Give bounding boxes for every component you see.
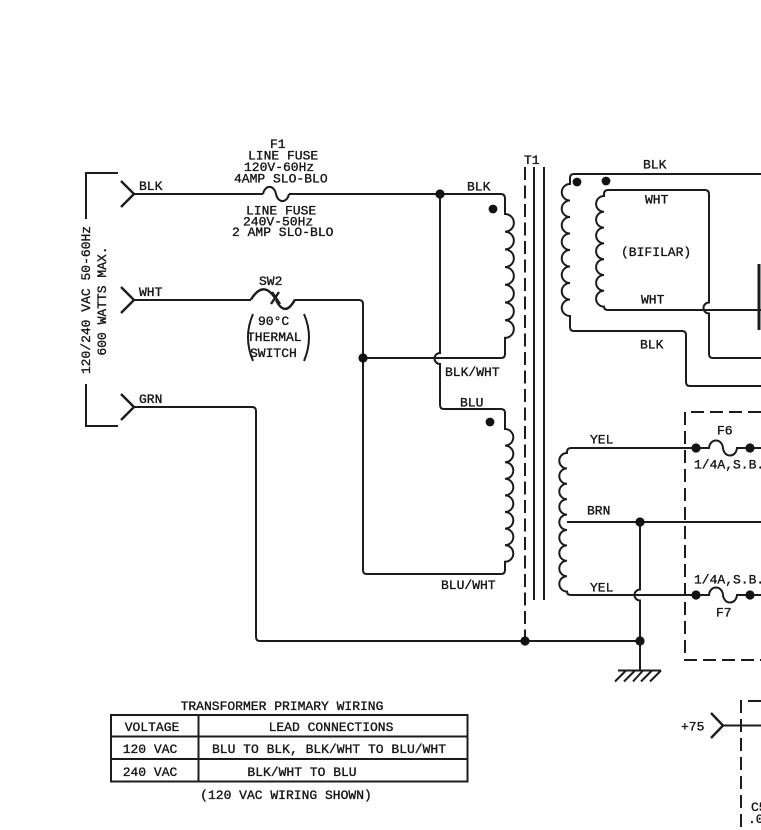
svg-text:240 VAC: 240 VAC bbox=[123, 765, 178, 780]
wire BRN tap bbox=[567, 521, 761, 523]
svg-text:BLK/WHT TO BLU: BLK/WHT TO BLU bbox=[247, 765, 356, 780]
svg-text:2 AMP SLO-BLO: 2 AMP SLO-BLO bbox=[232, 225, 334, 240]
svg-text:BLK: BLK bbox=[640, 338, 664, 353]
connector BLK input bbox=[121, 181, 134, 207]
ground symbol bbox=[615, 641, 661, 682]
svg-text:BLU TO BLK, BLK/WHT TO BLU/WHT: BLU TO BLK, BLK/WHT TO BLU/WHT bbox=[212, 742, 446, 757]
dashed module box bbox=[685, 412, 761, 660]
svg-text:90°C: 90°C bbox=[258, 314, 289, 329]
wire WHT top route (with hop) bbox=[608, 190, 761, 358]
svg-text:BLU/WHT: BLU/WHT bbox=[441, 578, 496, 593]
dashed box lower right bbox=[741, 701, 761, 830]
thermal switch SW2 bbox=[251, 289, 295, 309]
polarity dot primary BLK bbox=[489, 205, 498, 214]
secondary winding 2 bifilar bbox=[596, 190, 761, 310]
junction dot BRN bbox=[635, 517, 644, 526]
thermal switch note left paren bbox=[248, 314, 253, 361]
wire BLK to BLU (with hop) and BLU winding bbox=[435, 194, 514, 574]
svg-text:(BIFILAR): (BIFILAR) bbox=[621, 245, 691, 260]
svg-text:+75: +75 bbox=[681, 720, 704, 735]
svg-text:BLK: BLK bbox=[139, 179, 163, 194]
svg-text:VOLTAGE: VOLTAGE bbox=[125, 720, 180, 735]
thermal switch note right paren bbox=[304, 314, 309, 361]
connector +75 output bbox=[711, 713, 723, 738]
fuse F7 bbox=[691, 588, 761, 603]
clipped component right edge bbox=[758, 264, 761, 330]
wire +75 bbox=[723, 725, 761, 727]
wire BRN to ground bus (with hop) bbox=[635, 522, 641, 641]
fuse F1 bbox=[263, 187, 289, 201]
core lines bbox=[534, 167, 544, 600]
svg-text:WHT: WHT bbox=[139, 285, 163, 300]
svg-text:BRN: BRN bbox=[587, 504, 610, 519]
junction dot WHT node bbox=[358, 353, 367, 362]
svg-text:4AMP SLO-BLO: 4AMP SLO-BLO bbox=[234, 172, 328, 187]
svg-text:F7: F7 bbox=[716, 606, 732, 621]
svg-text:TRANSFORMER PRIMARY WIRING: TRANSFORMER PRIMARY WIRING bbox=[181, 699, 384, 714]
input bracket bbox=[86, 173, 118, 426]
svg-text:WHT: WHT bbox=[641, 293, 665, 308]
svg-text:1/4A,S.B.: 1/4A,S.B. bbox=[694, 458, 761, 473]
core shield dashed line bbox=[524, 167, 526, 641]
primary winding BLK bbox=[363, 194, 514, 358]
svg-text:(120 VAC WIRING SHOWN): (120 VAC WIRING SHOWN) bbox=[200, 788, 372, 803]
wire GRN to ground bus bbox=[134, 407, 640, 641]
svg-text:YEL: YEL bbox=[590, 581, 613, 596]
polarity dot secondary 2 bbox=[602, 177, 611, 186]
svg-text:T1: T1 bbox=[524, 153, 540, 168]
svg-text:SW2: SW2 bbox=[259, 274, 282, 289]
svg-text:600 WATTS MAX.: 600 WATTS MAX. bbox=[95, 246, 110, 355]
secondary winding 3 YEL-BRN-YEL bbox=[559, 448, 692, 595]
junction dot BLK/fuse node bbox=[435, 189, 444, 198]
svg-text:SWITCH: SWITCH bbox=[250, 346, 297, 361]
svg-text:F6: F6 bbox=[717, 424, 733, 439]
junction dot ground bus bbox=[635, 636, 644, 645]
svg-text:THERMAL: THERMAL bbox=[247, 330, 302, 345]
svg-text:120 VAC: 120 VAC bbox=[123, 742, 178, 757]
svg-text:BLK: BLK bbox=[643, 158, 667, 173]
table frame bbox=[111, 715, 468, 782]
svg-text:BLK: BLK bbox=[467, 180, 491, 195]
svg-text:120/240 VAC 50-60Hz: 120/240 VAC 50-60Hz bbox=[79, 226, 94, 374]
svg-text:BLK/WHT: BLK/WHT bbox=[445, 365, 500, 380]
secondary winding 1 BLK-BLK bbox=[562, 174, 761, 386]
polarity dot secondary 1 bbox=[573, 178, 582, 187]
svg-text:.05: .05 bbox=[748, 812, 761, 827]
connector GRN input bbox=[121, 394, 134, 420]
connector WHT input bbox=[121, 287, 134, 313]
svg-text:LEAD CONNECTIONS: LEAD CONNECTIONS bbox=[269, 720, 394, 735]
junction dot shield to bus bbox=[520, 636, 529, 645]
svg-text:BLU: BLU bbox=[460, 396, 483, 411]
wire WHT node (SW2 out, down, BLU/WHT return) bbox=[295, 300, 501, 574]
fuse F6 bbox=[691, 441, 761, 456]
svg-text:GRN: GRN bbox=[139, 392, 162, 407]
wire WHT line bbox=[134, 299, 251, 301]
svg-text:YEL: YEL bbox=[590, 433, 613, 448]
svg-text:WHT: WHT bbox=[645, 193, 669, 208]
polarity dot primary BLU bbox=[486, 418, 495, 427]
wire BLK line bbox=[134, 193, 501, 195]
svg-text:1/4A,S.B.: 1/4A,S.B. bbox=[694, 573, 761, 588]
